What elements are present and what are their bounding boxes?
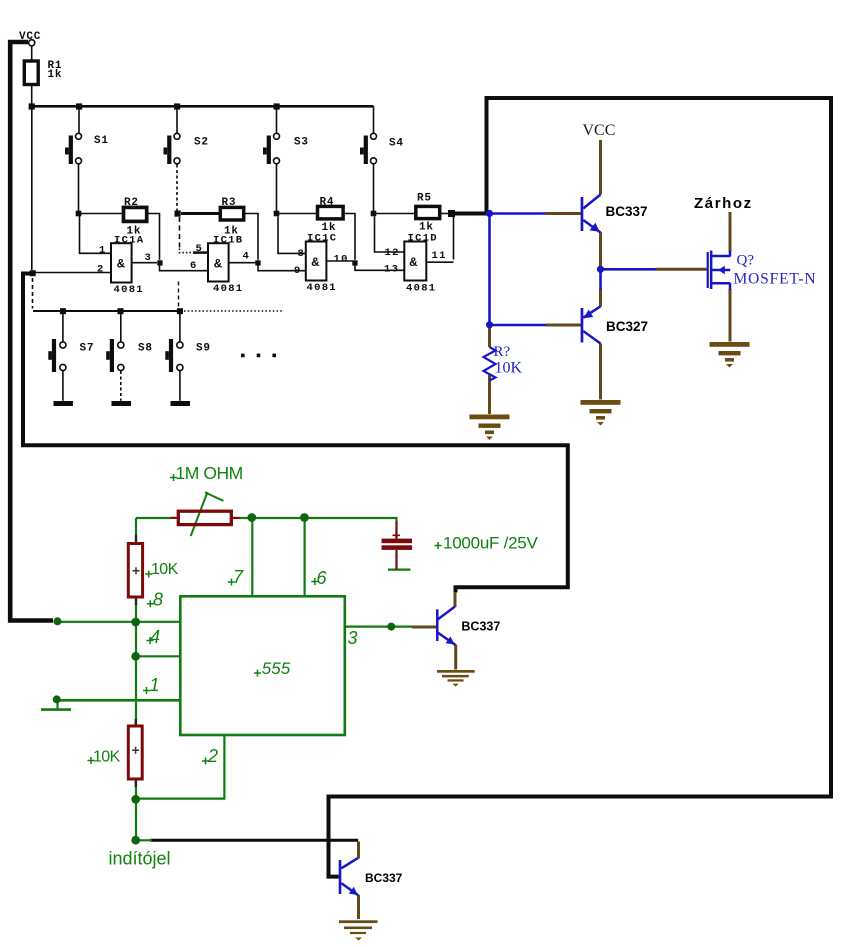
svg-text:1: 1 (150, 675, 160, 695)
svg-text:9: 9 (294, 265, 302, 277)
svg-text:2: 2 (97, 264, 105, 276)
svg-text:R3: R3 (222, 197, 237, 209)
svg-text:2: 2 (207, 746, 218, 766)
svg-text:Q?: Q? (737, 253, 755, 269)
svg-text:S2: S2 (194, 137, 209, 149)
svg-text:BC327: BC327 (606, 319, 648, 334)
svg-text:3: 3 (348, 628, 358, 648)
svg-text:555: 555 (262, 659, 291, 678)
svg-text:10K: 10K (93, 749, 121, 766)
svg-text:IC1B: IC1B (213, 234, 243, 246)
svg-text:3: 3 (145, 252, 153, 264)
svg-text:&: & (117, 257, 125, 272)
svg-text:IC1C: IC1C (307, 233, 337, 245)
svg-text:&: & (410, 255, 418, 270)
svg-text:&: & (214, 257, 222, 272)
svg-text:1000uF /25V: 1000uF /25V (443, 534, 539, 553)
svg-text:6: 6 (317, 568, 328, 588)
svg-text:BC337: BC337 (606, 204, 648, 219)
svg-text:10K: 10K (151, 561, 179, 578)
svg-text:10K: 10K (495, 359, 523, 376)
svg-text:4081: 4081 (307, 282, 337, 294)
svg-text:4: 4 (150, 627, 160, 647)
svg-text:10: 10 (334, 253, 349, 265)
svg-text:R5: R5 (417, 193, 432, 205)
svg-text:1M OHM: 1M OHM (176, 463, 243, 483)
svg-text:1: 1 (99, 245, 107, 257)
svg-text:indítójel: indítójel (109, 849, 171, 869)
svg-text:S8: S8 (138, 343, 153, 355)
svg-text:BC337: BC337 (461, 620, 500, 634)
svg-text:6: 6 (190, 260, 198, 272)
svg-text:S1: S1 (94, 135, 109, 147)
svg-text:8: 8 (298, 248, 306, 260)
svg-text:&: & (312, 255, 320, 270)
svg-text:Zárhoz: Zárhoz (694, 195, 753, 212)
svg-text:VCC: VCC (583, 122, 616, 139)
svg-text:12: 12 (385, 247, 400, 259)
svg-text:S9: S9 (196, 343, 211, 355)
svg-text:4081: 4081 (213, 283, 243, 295)
svg-text:IC1A: IC1A (114, 234, 144, 246)
svg-text:4081: 4081 (114, 284, 144, 296)
svg-text:S7: S7 (80, 343, 95, 355)
svg-text:4081: 4081 (406, 283, 436, 295)
svg-text:IC1D: IC1D (408, 233, 438, 245)
svg-text:S4: S4 (389, 138, 404, 150)
svg-text:11: 11 (432, 250, 447, 262)
svg-text:R4: R4 (320, 197, 335, 209)
svg-text:MOSFET-N: MOSFET-N (734, 271, 817, 288)
svg-text:R2: R2 (124, 197, 139, 209)
svg-text:7: 7 (233, 567, 244, 587)
svg-text:8: 8 (153, 590, 163, 610)
svg-text:4: 4 (243, 250, 251, 262)
svg-text:1k: 1k (48, 69, 63, 81)
svg-text:BC337: BC337 (365, 871, 403, 885)
svg-text:VCC: VCC (19, 31, 41, 43)
svg-text:5: 5 (196, 243, 204, 255)
svg-text:13: 13 (384, 264, 399, 276)
svg-text:S3: S3 (294, 137, 309, 149)
svg-text:R?: R? (494, 344, 511, 360)
